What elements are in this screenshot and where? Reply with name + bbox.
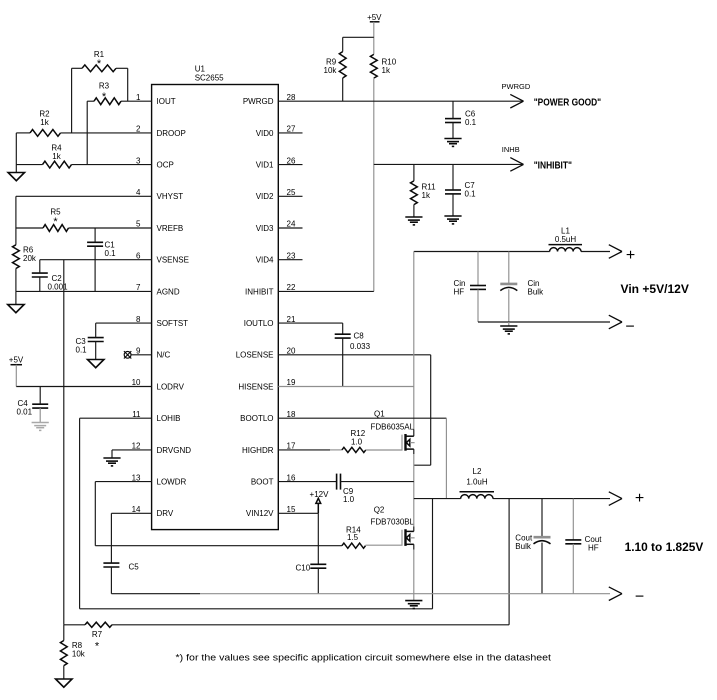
wire pin 1 IOUT xyxy=(121,100,152,102)
svg-text:*) for the values see specific: *) for the values see specific applicati… xyxy=(176,653,552,663)
wire pin 20 LOSENSE xyxy=(278,354,430,356)
svg-text:FDB6035AL: FDB6035AL xyxy=(371,423,415,432)
wire VHYST down to VREFB xyxy=(15,196,17,228)
svg-text:1k: 1k xyxy=(40,118,49,127)
capacitor C6 0.1 xyxy=(445,118,461,120)
svg-text:1.5: 1.5 xyxy=(347,533,359,542)
resistor R11 1k xyxy=(411,181,418,205)
wire pin 5 VREFB line xyxy=(16,227,43,229)
wire left rail R2/R4 to ground xyxy=(15,133,17,173)
wire R3 left lead xyxy=(87,100,94,102)
wire C1 leads xyxy=(94,228,96,242)
ground below R11 xyxy=(405,216,422,218)
wire AGND rail to ground xyxy=(15,291,17,304)
svg-text:VID0: VID0 xyxy=(256,129,274,138)
svg-text:BOOTLO: BOOTLO xyxy=(240,414,273,423)
svg-text:"POWER GOOD": "POWER GOOD" xyxy=(534,96,601,108)
svg-text:U1: U1 xyxy=(195,65,206,74)
Vout + arrow xyxy=(609,492,622,499)
svg-text:N/C: N/C xyxy=(157,351,171,360)
wire R7 to output sense xyxy=(112,624,509,626)
wire Vin top rail xyxy=(414,251,550,253)
svg-text:14: 14 xyxy=(132,505,141,514)
resistor R10 1k xyxy=(370,54,377,78)
wire C9 to switch node xyxy=(341,481,414,483)
svg-text:17: 17 xyxy=(287,442,296,451)
resistor R12 1.0 xyxy=(342,447,366,452)
wire pin 21 IOUTLO xyxy=(278,322,342,324)
svg-text:R3: R3 xyxy=(99,82,110,91)
svg-text:11: 11 xyxy=(132,410,141,419)
svg-text:24: 24 xyxy=(287,220,296,229)
capacitor C10 xyxy=(310,563,326,565)
svg-text:+12V: +12V xyxy=(310,490,330,499)
svg-text:20k: 20k xyxy=(23,254,37,263)
ground below R8 xyxy=(56,679,72,687)
svg-text:AGND: AGND xyxy=(157,287,180,296)
svg-text:VID1: VID1 xyxy=(256,161,274,170)
svg-text:22: 22 xyxy=(287,283,296,292)
wire Vin rail down to Q1 drain xyxy=(413,252,415,430)
wire +12V down to C10 xyxy=(317,513,319,564)
svg-text:10k: 10k xyxy=(72,650,86,659)
wire Q1 source down switch node xyxy=(413,449,415,454)
svg-text:DRVGND: DRVGND xyxy=(157,446,192,455)
svg-text:8: 8 xyxy=(136,315,141,324)
svg-text:0.01: 0.01 xyxy=(17,408,33,417)
ground below C7 xyxy=(444,215,461,217)
svg-text:15: 15 xyxy=(287,505,296,514)
wire R1 right down to pin 1 xyxy=(127,68,129,101)
capacitor C9 1.0 xyxy=(336,474,338,490)
svg-text:9: 9 xyxy=(136,347,141,356)
svg-text:PWRGD: PWRGD xyxy=(502,82,531,91)
resistor R6 20k xyxy=(13,245,20,269)
svg-text:18: 18 xyxy=(287,410,296,419)
capacitor Cin HF xyxy=(477,252,479,286)
resistor R14 1.5 xyxy=(342,543,366,548)
svg-text:VID2: VID2 xyxy=(256,192,274,201)
svg-text:Vin +5V/12V: Vin +5V/12V xyxy=(621,284,690,296)
wire pin 13 LOWDR xyxy=(95,481,151,483)
transistor Q1 FDB6035AL xyxy=(366,435,402,450)
capacitor C8 0.033 xyxy=(335,333,351,335)
resistor R1 xyxy=(82,65,116,72)
svg-text:DRV: DRV xyxy=(157,509,174,518)
VID0-VID4 unconnected pin stubs xyxy=(278,132,302,134)
resistor R2 1k xyxy=(30,130,61,137)
wire pin 17 HIGHDR xyxy=(278,449,330,451)
svg-text:*: * xyxy=(102,91,107,103)
svg-text:6: 6 xyxy=(136,251,141,260)
wire pin 11 LOHIB xyxy=(80,417,152,419)
wire switch node to L2 xyxy=(414,498,461,500)
ground below R4 rail xyxy=(8,173,24,181)
svg-text:+: + xyxy=(635,490,644,507)
ground below C3 xyxy=(88,360,104,368)
svg-text:SC2655: SC2655 xyxy=(195,74,224,83)
Vin + arrow xyxy=(609,245,622,252)
capacitor C1 0.1 xyxy=(87,241,103,243)
wire pin 18 BOOTLO xyxy=(278,417,446,419)
wire VSENSE feedback vertical xyxy=(63,260,65,625)
capacitor C5 xyxy=(103,562,119,564)
svg-text:1.0: 1.0 xyxy=(351,438,363,447)
Vin - arrow xyxy=(609,315,622,322)
capacitor C7 0.1 xyxy=(445,189,461,191)
wire pin 7 AGND line xyxy=(16,290,152,292)
svg-text:VID3: VID3 xyxy=(256,224,274,233)
PWRGD arrow xyxy=(510,94,523,101)
inductor L2 1.0uH xyxy=(460,491,495,493)
svg-text:Bulk: Bulk xyxy=(528,288,545,297)
svg-text:HIGHDR: HIGHDR xyxy=(242,446,274,455)
svg-text:1.10 to 1.825V: 1.10 to 1.825V xyxy=(625,542,704,554)
svg-text:13: 13 xyxy=(132,473,141,482)
wire LOHIB down xyxy=(79,418,81,609)
wire output sense down xyxy=(508,499,510,625)
ground below C6 xyxy=(444,138,461,140)
svg-text:0.1: 0.1 xyxy=(76,346,88,355)
svg-text:IOUT: IOUT xyxy=(157,97,176,106)
svg-text:21: 21 xyxy=(287,315,296,324)
resistor R7 xyxy=(85,622,112,627)
resistor R4 1k xyxy=(43,161,72,168)
wire LOWDR down and right xyxy=(94,482,96,546)
svg-text:Q1: Q1 xyxy=(374,410,385,419)
svg-text:0.1: 0.1 xyxy=(465,118,477,127)
svg-text:HF: HF xyxy=(454,288,465,297)
wire pin 16 BOOT xyxy=(278,481,336,483)
transistor Q2 FDB7030BL xyxy=(366,530,403,545)
wire pin 6 VSENSE line xyxy=(40,259,152,261)
svg-text:INHIBIT: INHIBIT xyxy=(245,287,274,296)
wire feedback row xyxy=(64,624,85,626)
wire R9 to PWRGD line xyxy=(342,78,344,101)
svg-text:BOOT: BOOT xyxy=(251,478,274,487)
resistor R5 xyxy=(43,225,69,232)
svg-text:VIN12V: VIN12V xyxy=(246,509,274,518)
svg-text:0.1: 0.1 xyxy=(105,249,117,258)
svg-text:19: 19 xyxy=(287,378,296,387)
wire pin 14 DRV xyxy=(111,512,151,514)
svg-text:LODRV: LODRV xyxy=(157,382,185,391)
capacitor C2 0.001 xyxy=(32,272,48,274)
wire R3 left down to OCP line xyxy=(86,101,88,164)
svg-text:1.0uH: 1.0uH xyxy=(466,478,488,487)
svg-text:20: 20 xyxy=(287,347,296,356)
wire switch node down to LOHIB run xyxy=(432,499,434,609)
svg-text:VHYST: VHYST xyxy=(157,192,184,201)
resistor R8 10k xyxy=(60,641,67,666)
svg-text:0.033: 0.033 xyxy=(350,342,371,351)
svg-text:*: * xyxy=(53,216,58,228)
wire R11 leads xyxy=(413,164,415,181)
Vout - arrow xyxy=(609,587,622,594)
capacitor Cout Bulk xyxy=(541,499,543,538)
svg-text:10k: 10k xyxy=(324,66,338,75)
ground Vin xyxy=(508,322,510,326)
capacitor C4 0.01 xyxy=(32,403,48,405)
wire INHIBIT arrow line xyxy=(374,163,524,165)
svg-text:IOUTLO: IOUTLO xyxy=(244,319,274,328)
capacitor Cin Bulk xyxy=(508,252,510,284)
svg-text:0.001: 0.001 xyxy=(48,283,69,292)
wire Q2 source down to ground xyxy=(413,544,415,549)
wire C7 leads xyxy=(452,164,454,190)
wire LOHIB bottom run to switch node xyxy=(80,608,433,610)
svg-text:LOSENSE: LOSENSE xyxy=(236,351,274,360)
svg-text:1k: 1k xyxy=(382,66,391,75)
svg-text:VID4: VID4 xyxy=(256,256,274,265)
capacitor Cout HF xyxy=(572,499,574,540)
svg-text:VREFB: VREFB xyxy=(157,224,184,233)
svg-text:R7: R7 xyxy=(92,630,103,639)
svg-text:28: 28 xyxy=(287,93,296,102)
wire R8 leads xyxy=(63,625,65,641)
wire C3 leads xyxy=(95,323,97,338)
wire C4 leads xyxy=(39,387,41,405)
svg-text:25: 25 xyxy=(287,188,296,197)
wire C6 leads xyxy=(452,101,454,118)
svg-text:12: 12 xyxy=(132,442,141,451)
svg-text:"INHIBIT": "INHIBIT" xyxy=(534,159,572,171)
svg-text:4: 4 xyxy=(136,188,141,197)
IC U1 SC2655 body xyxy=(152,85,279,530)
wire pin 28 PWRGD line xyxy=(278,100,523,102)
svg-text:23: 23 xyxy=(287,251,296,260)
wire R6 leads xyxy=(15,228,17,245)
wire R1 leads xyxy=(72,67,82,69)
svg-text:+: + xyxy=(626,247,635,264)
svg-text:1k: 1k xyxy=(422,191,431,200)
ground below AGND xyxy=(8,305,24,313)
wire C2 leads xyxy=(39,260,41,273)
svg-text:INHB: INHB xyxy=(502,145,520,154)
svg-text:LOWDR: LOWDR xyxy=(157,478,187,487)
svg-text:C10: C10 xyxy=(296,564,311,573)
svg-text:PWRGD: PWRGD xyxy=(243,97,274,106)
capacitor C3 0.1 xyxy=(88,337,104,339)
wire C8 down to HISENSE xyxy=(342,338,344,386)
svg-text:FDB7030BL: FDB7030BL xyxy=(371,518,415,527)
wire ground rail bottom xyxy=(111,593,200,595)
svg-text:HF: HF xyxy=(588,544,599,553)
svg-text:HISENSE: HISENSE xyxy=(238,382,273,391)
resistor R9 10k xyxy=(339,52,346,78)
svg-text:Q2: Q2 xyxy=(374,506,385,515)
wire pin 15 VIN12V xyxy=(278,512,318,514)
ground at DRVGND xyxy=(103,457,120,459)
wire pin 3 OCP line xyxy=(16,164,42,166)
wire pin 2 DROOP line xyxy=(16,132,30,134)
svg-text:Bulk: Bulk xyxy=(515,542,532,551)
svg-text:3: 3 xyxy=(136,156,141,165)
svg-text:SOFTST: SOFTST xyxy=(157,319,189,328)
svg-text:−: − xyxy=(625,319,634,336)
svg-text:−: − xyxy=(635,588,644,605)
svg-text:C5: C5 xyxy=(129,563,140,572)
svg-text:*: * xyxy=(97,58,102,70)
wire C10 to ground rail xyxy=(317,568,319,594)
svg-text:1: 1 xyxy=(136,93,141,102)
svg-text:26: 26 xyxy=(287,156,296,165)
ground Q2 source xyxy=(405,600,422,602)
svg-text:LOHIB: LOHIB xyxy=(157,414,181,423)
wire L1 to + arrow xyxy=(581,251,610,253)
wire pin 8 SOFTST xyxy=(96,322,152,324)
svg-text:L2: L2 xyxy=(473,467,482,476)
svg-text:DROOP: DROOP xyxy=(157,129,186,138)
wire R10 down to INHIBIT net xyxy=(373,78,375,291)
ground below C4 xyxy=(32,422,49,424)
pin 9 no-connect symbol xyxy=(131,354,151,356)
svg-text:C8: C8 xyxy=(354,332,365,341)
svg-text:1k: 1k xyxy=(52,152,61,161)
wire R1 left to DROOP node xyxy=(71,68,73,133)
wire Vin bottom rail xyxy=(478,321,610,323)
INHIBIT arrow xyxy=(510,158,523,165)
svg-text:0.1: 0.1 xyxy=(465,190,477,199)
resistor R3 xyxy=(94,98,121,105)
wire pin 19 HISENSE xyxy=(278,386,414,388)
wire BOOTLO down to switch node xyxy=(445,418,447,498)
wire L2 to + arrow xyxy=(493,498,610,500)
svg-text:5: 5 xyxy=(136,220,141,229)
svg-text:+5V: +5V xyxy=(367,13,382,22)
svg-text:OCP: OCP xyxy=(157,161,174,170)
wire +5V branch to R9 xyxy=(343,36,374,38)
wire pin 22 INHIBIT xyxy=(278,290,374,292)
wire pin 4 VHYST xyxy=(16,195,152,197)
svg-text:1.0: 1.0 xyxy=(343,495,355,504)
wire C5 to ground rail xyxy=(110,567,112,594)
svg-text:27: 27 xyxy=(287,125,296,134)
svg-text:VSENSE: VSENSE xyxy=(157,256,189,265)
svg-text:*: * xyxy=(95,641,100,653)
svg-text:16: 16 xyxy=(287,473,296,482)
wire LOSENSE down to switch node xyxy=(430,355,432,465)
svg-text:7: 7 xyxy=(136,283,141,292)
wire pin 12 DRVGND xyxy=(112,449,152,451)
wire pin 10 LODRV line xyxy=(16,386,151,388)
wire Q2 drain up to switch node xyxy=(413,499,415,527)
svg-text:2: 2 xyxy=(136,125,141,134)
svg-text:0.5uH: 0.5uH xyxy=(555,235,577,244)
svg-text:10: 10 xyxy=(132,378,141,387)
svg-text:+5V: +5V xyxy=(9,356,24,365)
inductor L1 0.5uH xyxy=(549,244,583,246)
